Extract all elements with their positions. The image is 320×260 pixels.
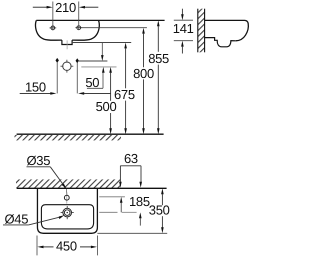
- 500 dimension line: [109, 67, 112, 73]
- drain top view: [63, 208, 72, 217]
- svg-text:675: 675: [114, 87, 135, 102]
- wall section (side view): [198, 9, 205, 53]
- washbasin side view profile: [205, 20, 249, 40]
- wall line (top view): [17, 187, 167, 189]
- dimension 210: [33, 6, 47, 8]
- svg-text:150: 150: [25, 79, 46, 94]
- waste connection circle symbol: [63, 62, 71, 70]
- 141 bottom reference: [174, 40, 193, 42]
- tap hole left: [50, 27, 57, 29]
- dimension 350: [161, 188, 164, 194]
- 855 dimension line: [157, 20, 160, 26]
- svg-text:350: 350: [149, 203, 170, 218]
- faucet hole top view: [66, 192, 68, 204]
- floor hatching: [15, 135, 122, 141]
- svg-text:800: 800: [133, 66, 154, 81]
- 800 dimension line: [142, 28, 145, 34]
- line A supply level: [79, 60, 108, 62]
- svg-text:50: 50: [85, 75, 99, 90]
- 141 arrows: [181, 9, 183, 15]
- washbasin top view outer outline: [37, 188, 97, 233]
- extension line left tap: [52, 2, 54, 31]
- faucet level reference line: [99, 196, 125, 198]
- 63 lower arrow at faucet line: [120, 197, 123, 203]
- svg-text:141: 141: [173, 21, 194, 36]
- tap hole right: [75, 27, 82, 29]
- svg-text:Ø35: Ø35: [26, 153, 50, 168]
- svg-text:855: 855: [148, 51, 169, 66]
- water connection diamond right: [76, 58, 79, 63]
- inner bowl outline: [41, 205, 93, 229]
- 141 top reference: [174, 19, 193, 21]
- floor line: [17, 133, 164, 135]
- extension line right tap: [78, 2, 80, 31]
- svg-text:210: 210: [55, 0, 76, 15]
- svg-text:185: 185: [129, 194, 150, 209]
- washbasin front view outline: [35, 20, 61, 40]
- dimension 450: [36, 236, 38, 256]
- 675 dimension line: [124, 43, 127, 49]
- 50 dim upper arrow (down onto line A): [101, 43, 103, 56]
- drain outlet front view: [62, 40, 72, 44]
- basin bottom reference line (675 level): [72, 42, 131, 44]
- rim reference line (855 level): [36, 19, 164, 21]
- 50 dim lower arrow + leader: [102, 67, 105, 73]
- front edge reference line: [97, 232, 167, 234]
- tap level reference line (800 level): [81, 27, 147, 29]
- svg-text:450: 450: [56, 239, 77, 254]
- drain level reference line: [99, 211, 117, 213]
- water connection diamond left: [56, 58, 59, 63]
- line B waste level (500): [81, 66, 116, 68]
- centerline below drain: [66, 40, 68, 49]
- svg-text:63: 63: [124, 151, 138, 166]
- svg-text:Ø45: Ø45: [4, 211, 28, 226]
- lower wall section (top view): [16, 179, 121, 188]
